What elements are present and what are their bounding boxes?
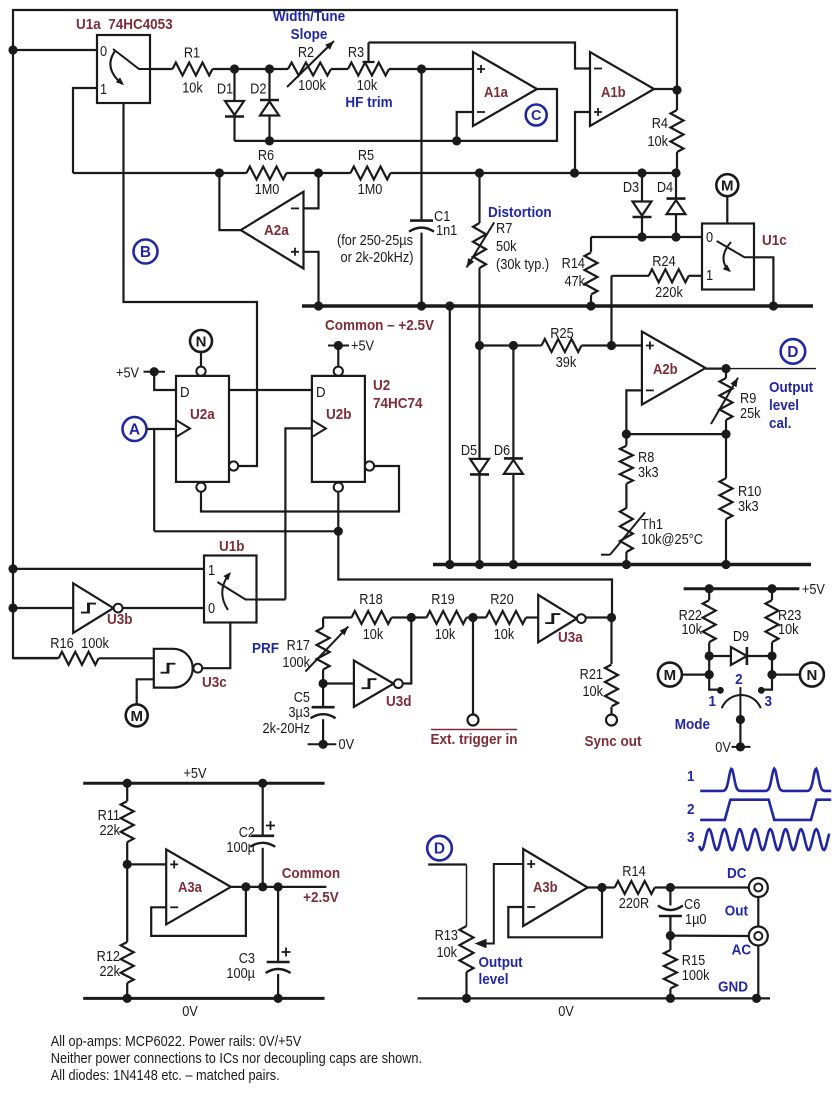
svg-text:100µ: 100µ [226,839,255,855]
svg-text:0: 0 [100,43,107,59]
terminal M (mode) [658,663,709,687]
junction: R22 top [705,584,714,593]
svg-text:D: D [180,383,190,400]
resistor R3 10k (HF trim) [348,43,389,94]
junction: left rail to U1b [8,564,17,573]
svg-text:R15: R15 [682,952,706,968]
svg-text:U3b: U3b [107,611,133,628]
wire: R3 to A1a plus input [389,68,473,70]
wire: U2b reset to trigger line [338,492,612,618]
diode D3 [623,173,652,237]
svg-text:DC: DC [727,865,746,882]
resistor R24 220k [612,253,703,300]
svg-text:10k: 10k [494,626,515,642]
svg-text:C6: C6 [684,896,700,912]
svg-text:+2.5V: +2.5V [303,889,339,906]
node C [526,105,547,126]
svg-text:3µ3: 3µ3 [288,704,310,720]
junction: A2a output node [215,168,224,177]
analog switch U1b (74HC4053 section b) [204,538,257,622]
svg-text:1: 1 [100,81,107,97]
junction: D2 top [265,64,274,73]
junction: C6 bottom / AC node [666,931,675,940]
svg-text:C5: C5 [294,689,311,705]
svg-text:Width/Tune: Width/Tune [273,8,345,25]
svg-text:or 2k-20kHz): or 2k-20kHz) [341,249,414,265]
svg-text:A3a: A3a [178,879,202,895]
svg-text:3k3: 3k3 [638,464,659,480]
svg-text:10k@25°C: 10k@25°C [641,531,703,547]
junction: R4/D4 node [671,168,680,177]
diode D6 [494,346,523,565]
label: PRF [252,640,279,657]
potentiometer R2 100k (Width/Tune Slope) [287,41,334,93]
inverter U3d (schmitt) [354,661,412,711]
svg-text:2k-20Hz: 2k-20Hz [263,720,311,736]
nand gate U3c (schmitt) [154,649,227,691]
svg-text:U1b: U1b [219,538,245,555]
junction: D6 top [509,341,518,350]
wire: oscillator line R17 to R18 [323,616,352,618]
wire: A3a feedback [151,887,246,936]
junction: D1 top [230,64,239,73]
wire: U1c pole to common rail [754,257,773,306]
junction: N node [767,670,776,679]
svg-text:Sync out: Sync out [585,733,642,750]
svg-text:R19: R19 [431,591,454,607]
waveform 3 (sine) [687,829,829,850]
wire: output D line [726,368,816,370]
junction: C1 top [417,64,426,73]
potentiometer R13 10k (Output level) [435,926,474,998]
svg-text:10k: 10k [435,626,456,642]
wire: R18 to R19 [392,616,427,618]
svg-text:1M0: 1M0 [255,181,280,197]
potentiometer R17 100k (PRF) [282,618,348,684]
junction: D3 bottom [637,232,646,241]
wire: U2a reset line [201,466,399,512]
svg-text:10k: 10k [182,80,203,96]
svg-text:R7: R7 [496,220,512,236]
wire: U1a pole to R1 [150,68,173,70]
resistor R23 10k [766,589,802,656]
resistor R14 220R (output) [615,863,655,911]
svg-text:R1: R1 [184,45,200,61]
wire: U1a common pin down to U2a Qbar [124,103,258,466]
svg-text:22k: 22k [99,822,120,838]
ground 0V (mode) [715,720,750,756]
junction: C2 top [258,779,267,788]
resistor R1 10k [173,45,213,96]
inverter U3a (schmitt) [538,595,585,646]
wire: AC line [670,934,748,937]
junction: D4 bottom [671,232,680,241]
wire: U3a output [586,616,612,618]
potentiometer R9 25k (Output level cal.) [711,369,761,435]
label: Out [725,903,748,920]
junction: divider column top [445,301,454,310]
connector DC out [727,865,768,897]
svg-text:74HC74: 74HC74 [373,395,423,412]
wire: R13 wiper to A3b plus [475,864,524,948]
svg-text:R8: R8 [638,449,654,465]
wire: A1b plus input to lower line [575,112,590,173]
wire: U1a pin 1 to R6/R5 line [73,88,97,173]
svg-text:Ext. trigger in: Ext. trigger in [431,731,518,748]
flip-flop U2b (74HC74) [312,367,374,492]
node D (output) [781,339,806,364]
svg-text:10k: 10k [436,944,457,960]
svg-text:U2a: U2a [190,406,216,423]
wire: A2a plus to common [304,252,319,306]
svg-text:D5: D5 [461,442,478,458]
svg-text:R14: R14 [622,863,646,879]
svg-text:N: N [196,333,207,350]
junction: R9 bottom / R10 top [721,430,730,439]
label: C1 frequency note [337,232,414,265]
ground rail 0V (A3a) [83,998,324,1019]
svg-text:0: 0 [208,600,215,616]
svg-text:220k: 220k [655,284,683,300]
net: lower distribution rail [433,563,811,566]
junction: R15 bottom [666,994,675,1003]
wire: A1a feedback to diode line [235,89,558,141]
svg-text:M: M [130,708,143,725]
wire: U3d input [323,682,354,684]
svg-text:Common: Common [282,865,340,882]
svg-text:D: D [316,383,326,400]
svg-text:A2a: A2a [264,222,290,239]
ground rail 0V (output) [418,998,771,1019]
svg-text:A1a: A1a [484,84,508,100]
resistor R25 39k [542,325,582,370]
svg-text:2: 2 [687,801,695,818]
wire: D3/D4 bottom line to U1c pin 0 [591,236,716,238]
terminal: Ext. trigger in [431,715,518,749]
svg-text:10k: 10k [778,621,799,637]
terminal N above U2a [190,330,212,366]
wire: A3a output (Common) [231,886,327,888]
label: Common +2.5V [282,865,340,906]
svg-text:1µ0: 1µ0 [685,911,707,927]
svg-text:(30k typ.): (30k typ.) [496,256,549,272]
svg-text:39k: 39k [556,354,577,370]
wire: A1b output feedback loop (top and left rails) [13,10,677,658]
thermistor Th1 10k@25C [601,508,703,565]
svg-text:C2: C2 [239,824,255,840]
svg-text:R4: R4 [652,115,669,131]
svg-text:1: 1 [708,693,716,710]
svg-text:R18: R18 [359,591,382,607]
wire: R8/R9 junction line [626,433,726,435]
svg-text:(for 250-25µs: (for 250-25µs [337,232,413,248]
svg-text:B: B [140,244,151,261]
analog switch U1a (74HC4053 section a) [76,16,173,103]
junction: C1 bottom [417,301,426,310]
wire: mode contact 1 [709,656,720,690]
svg-text:M: M [664,667,677,684]
terminal: Sync out [585,715,642,751]
svg-text:+5V: +5V [802,581,826,597]
svg-text:R16: R16 [50,635,73,651]
capacitor C6 1u0 [658,888,707,936]
connector AC out [732,927,768,959]
svg-text:A3b: A3b [533,879,558,895]
wire: U3d output to R18/R19 node [403,618,411,684]
wire: common rail branch to lower rail [449,306,451,565]
junction: R11 top [123,779,132,788]
wire: U2a Q to U2b D [229,389,312,391]
wire: U2b clock from U1b [285,428,312,599]
svg-text:10k: 10k [647,133,668,149]
wire: R14 to DC jack [655,886,749,888]
wire: U2a clock to trigger line [153,429,155,531]
svg-text:10k: 10k [363,626,384,642]
label: Distortion [488,204,552,221]
label: Output level [479,954,523,988]
svg-text:cal.: cal. [769,415,791,432]
junction: U1c pole on common [769,301,778,310]
junction: shell ground [752,994,761,1003]
svg-text:220R: 220R [619,895,650,911]
junction: R7 top [475,168,484,177]
svg-text:100µ: 100µ [226,965,255,981]
junction: D2 bottom [265,136,274,145]
svg-text:R12: R12 [97,948,120,964]
waveform 1 (pulse) [687,768,831,791]
wire: R19 to R20 [467,616,487,618]
svg-text:3k3: 3k3 [738,498,759,514]
svg-text:3: 3 [687,829,695,846]
svg-text:R20: R20 [490,591,514,607]
svg-text:22k: 22k [99,963,120,979]
svg-text:PRF: PRF [252,640,279,657]
svg-text:R17: R17 [287,637,310,653]
capacitor C5 3u3 [263,684,336,745]
junction: D5 bottom [475,560,484,569]
svg-text:D1: D1 [217,81,233,97]
svg-text:C: C [531,108,542,124]
svg-text:HF trim: HF trim [345,94,392,111]
op-amp A1b [590,52,654,126]
junction: left rail to U1a pin 0 [8,45,17,54]
inverter U3b (schmitt) [73,583,133,633]
junction: Th1 bottom [622,560,631,569]
svg-text:M: M [721,178,734,195]
junction: R12 bottom [123,994,132,1003]
svg-text:U3c: U3c [202,674,227,691]
svg-text:+5V: +5V [351,338,375,354]
label: Mode [675,716,710,733]
svg-text:R11: R11 [98,807,120,823]
wire: integrator line [73,172,247,174]
potentiometer R7 50k (Distortion) [467,173,550,346]
svg-text:Th1: Th1 [641,516,663,532]
svg-text:10k: 10k [582,683,603,699]
svg-text:Common – +2.5V: Common – +2.5V [325,317,434,334]
wire: trigger line horizontal [154,530,338,532]
label: U2 74HC74 [373,377,423,412]
label: Common - +2.5V [325,317,434,334]
junction: A2b output node [721,364,730,373]
resistor R11 22k [98,783,134,864]
junction: branch on lower rail [445,560,454,569]
capacitor C3 100u [226,887,290,999]
svg-text:10k: 10k [681,621,702,637]
op-amp A2a [241,192,304,269]
junction: R10 bottom [721,560,730,569]
svg-text:R6: R6 [258,147,274,163]
switch Mode (contacts) [708,671,772,724]
junction: trigger line joins U2b reset [334,527,343,536]
op-amp A3b [523,849,587,926]
svg-text:100k: 100k [81,635,109,651]
resistor R18 10k [352,591,392,642]
svg-text:A2b: A2b [653,361,678,377]
svg-text:3: 3 [765,693,773,710]
svg-text:1M0: 1M0 [358,181,383,197]
power +5V to U2b set [328,338,375,366]
junction: R8 top [622,430,631,439]
wire: A3b output [588,886,615,888]
wire: R3 tap to A1b minus input [369,43,591,69]
junction: C6 top [666,883,675,892]
junction: R11/R12 divider [123,860,132,869]
op-amp A3a [166,849,231,924]
wire: R5 to right side [391,172,678,174]
svg-text:level: level [479,971,509,988]
wire: R2 to R3 [331,68,348,70]
junction: C2 bottom [258,882,267,891]
resistor R4 10k [647,90,683,173]
svg-text:1: 1 [706,267,713,283]
svg-text:Distortion: Distortion [488,204,552,221]
svg-text:A1b: A1b [601,84,626,100]
svg-text:D: D [434,841,445,858]
wire: A2a minus to junction [304,173,319,208]
svg-text:Slope: Slope [291,26,328,43]
flip-flop U2a (74HC74) [176,367,238,492]
svg-text:R10: R10 [738,483,762,499]
junction: U3d input node [319,679,328,688]
svg-text:D9: D9 [733,628,749,644]
junction: A2a minus node [314,168,323,177]
junction: U3a output / sync node [607,613,616,622]
capacitor C1 1n1 [409,69,457,306]
svg-text:D4: D4 [657,179,674,195]
junction: D9 cathode [767,651,776,660]
wire: left rail to U3b input [13,607,73,609]
junction: A3a feedback tap [241,882,250,891]
wire: R20 to U3a [526,616,538,618]
svg-text:0V: 0V [339,736,355,752]
svg-text:R13: R13 [435,927,458,943]
svg-text:0V: 0V [558,1003,574,1019]
svg-text:10k: 10k [357,77,378,93]
svg-text:A: A [129,422,140,439]
wire: A2b minus input [626,390,642,434]
junction: D9 anode [705,651,714,660]
svg-text:U1c: U1c [762,232,787,249]
wire: A3b feedback [508,888,602,938]
junction: D3 top [637,168,646,177]
junction: A1a inverting feedback [452,136,461,145]
diode D5 [461,346,489,565]
wire: U3c output to U1b bottom [202,622,230,668]
resistor R19 10k [427,591,467,642]
junction: M node [705,670,714,679]
svg-text:U2: U2 [373,377,390,394]
junction: left rail to U3b [8,603,17,612]
svg-text:Mode: Mode [675,716,710,733]
junction: A1b output [672,85,681,94]
wire: divider to A3a plus [127,863,166,865]
svg-text:N: N [806,667,817,684]
svg-text:D6: D6 [494,442,510,458]
svg-text:100k: 100k [282,654,310,670]
svg-text:1: 1 [687,768,695,785]
wire: ext trigger input [472,618,474,715]
resistor R20 10k [486,591,526,642]
label: GND [718,979,748,996]
analog switch U1c (74HC4053 section c) [702,224,787,290]
label: Width/Tune Slope [273,8,345,43]
wire: A2a output feedback [219,173,240,230]
wire: mode contact 3 [761,656,772,690]
svg-text:R24: R24 [652,253,676,269]
power rail +5V (A3a) [83,765,324,783]
label: Output level cal. [769,379,813,432]
wire: A1a minus input [457,112,473,141]
junction: C3 top [274,882,283,891]
waveform 2 (trapezoid) [687,800,831,820]
junction: R24 tap on A2b plus [607,341,616,350]
wire: R6-R5 junction [287,172,351,174]
svg-text:D3: D3 [623,179,639,195]
svg-text:100k: 100k [298,77,326,93]
terminal M at U3c [126,679,154,726]
svg-text:All diodes: 1N4148 etc. – matc: All diodes: 1N4148 etc. – matched pairs. [51,1067,280,1083]
resistor R12 22k [97,864,134,998]
svg-text:D: D [787,344,798,361]
svg-text:U2b: U2b [326,406,352,423]
wire: U1b pole output [257,598,286,600]
resistor R15 100k [664,936,710,999]
svg-text:AC: AC [732,942,751,959]
op-amp A2b [642,332,706,405]
diode D2 [250,69,279,141]
diode D9 [709,628,772,665]
svg-text:R21: R21 [580,666,603,682]
wire: A2b output [706,368,727,370]
wire: R25 line from divider [480,344,542,346]
junction: D6 bottom [509,560,518,569]
diode D1 [217,69,244,141]
junction: R23 top [767,584,776,593]
junction: A3b feedback tap [597,883,606,892]
terminal M at U1c [716,174,738,223]
svg-text:0V: 0V [715,739,731,755]
terminal N (mode) [772,663,824,687]
wire: D to R13 top [428,865,466,927]
net: Common rail +2.5V [302,304,813,307]
svg-text:Neither power connections to I: Neither power connections to ICs nor dec… [51,1050,422,1066]
wire: U3b output to U1b pin 0 [123,607,205,609]
svg-text:2: 2 [735,671,743,688]
resistor R21 10k [580,618,618,715]
svg-text:Out: Out [725,903,748,920]
svg-text:Output: Output [769,379,813,396]
